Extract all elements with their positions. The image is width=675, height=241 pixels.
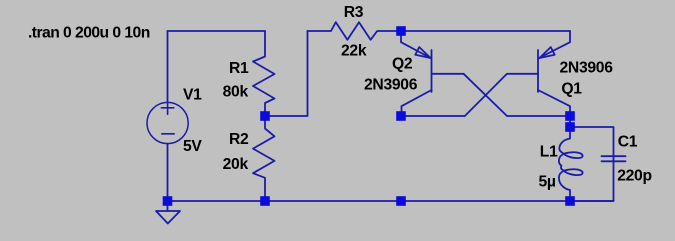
wire X diagonal left (to Q1 base) [465,74,538,116]
wire X diagonal right (Q2 base to Q1 collector node) [464,74,570,116]
resistor R2 [253,116,275,201]
inductor L1 [559,127,583,201]
wire Q1 collector node down [569,116,571,127]
junction R2 bottom on rail [260,196,270,206]
svg-text:R3: R3 [344,4,364,21]
transistor Q2 base bar [431,50,433,92]
transistor Q1 emitter arrow [540,47,555,58]
junction Q1 collector node [565,111,575,121]
wire divider node to R3 riser [265,31,308,116]
wire top-left horizontal to R1 [168,30,266,32]
resistor R3 [308,22,403,40]
junction Q2 collector node [396,111,406,121]
wire V1 top vertical [167,31,169,103]
transistor Q2 base lead [432,73,464,75]
svg-text:2N3906: 2N3906 [364,76,418,93]
svg-text:R1: R1 [229,60,249,77]
svg-text:2N3906: 2N3906 [560,59,614,76]
svg-text:L1: L1 [540,144,558,161]
ground [167,201,169,211]
svg-text:V1: V1 [183,86,202,103]
svg-text:5µ: 5µ [539,174,556,191]
transistor Q2 emitter arrow [415,47,430,58]
transistor Q1 emitter lead [538,31,570,59]
svg-text:Q2: Q2 [392,55,413,72]
voltage source V1 minus sign [162,133,174,135]
junction R1/R2 divider node [260,111,270,121]
wire bottom rail [168,200,614,202]
junction ground node [163,196,173,206]
voltage source V1 plus sign [161,107,173,109]
resistor R1 [253,31,275,116]
wire V1 bottom vertical [167,144,169,201]
junction Q2 collector on rail [396,196,406,206]
junction L1 bottom on rail [565,196,575,206]
wire C1 top branch [570,127,614,160]
transistor Q1 collector lead [538,90,570,116]
wire C1 bottom to rail [570,161,614,201]
wire top rail [402,30,570,32]
junction R3 right / Q2 emitter node [396,26,406,36]
svg-text:Q1: Q1 [561,81,582,98]
svg-text:C1: C1 [618,133,638,150]
svg-text:.tran 0 200u 0 10n: .tran 0 200u 0 10n [28,24,150,41]
junction L1/C1 tap node [565,122,575,132]
svg-text:22k: 22k [341,43,367,60]
svg-text:R2: R2 [229,131,249,148]
voltage source V1 circle [147,102,188,143]
transistor Q1 base bar [537,50,539,92]
transistor Q2 emitter lead [401,31,432,59]
svg-text:5V: 5V [183,138,202,155]
svg-text:20k: 20k [223,156,249,173]
svg-text:220p: 220p [617,168,652,185]
wire Q2 collector to X [401,115,465,117]
capacitor C1 bottom plate [602,160,626,162]
transistor Q2 collector lead [402,90,432,116]
capacitor C1 top plate [602,155,626,157]
svg-text:80k: 80k [223,84,249,101]
